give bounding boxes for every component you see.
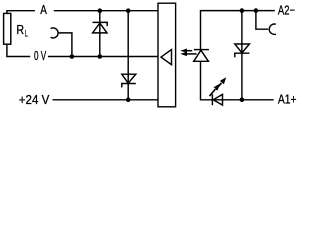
LED light arrow 2 head	[214, 84, 220, 91]
LED light arrow 1 head	[220, 77, 226, 84]
zener diode V3 leg (A2- to A1+)	[241, 11, 243, 100]
svg-text:0 V: 0 V	[34, 48, 46, 63]
svg-text:A2−: A2−	[278, 2, 295, 17]
LED light arrow 2	[210, 89, 216, 96]
connector arc stub on A2-	[256, 11, 268, 30]
junction dot 0V/V1	[98, 54, 103, 59]
zener V3 triangle	[235, 44, 250, 53]
opto light arrow 1 head	[180, 49, 187, 53]
svg-text:R: R	[16, 22, 24, 37]
optocoupler LED D1 cathode bar	[194, 49, 209, 51]
junction dot A1+/V3	[240, 98, 245, 103]
isolation box	[158, 3, 176, 107]
zener diode V2 leg (A to +24V, crossing 0V)	[127, 11, 129, 100]
indicator LED D2 triangle	[213, 94, 222, 105]
junction dot +24V/V2	[126, 98, 131, 103]
wire resistor bottom stub to 0V line	[7, 44, 30, 56]
svg-text:L: L	[25, 28, 28, 38]
zener V1 triangle	[93, 23, 107, 33]
svg-text:+24 V: +24 V	[19, 92, 50, 107]
zener V3 cathode bar with bent end	[235, 53, 250, 57]
zener V1 cathode bar with bent end	[93, 22, 108, 26]
wire 0V line after label to box	[48, 56, 158, 58]
junction dot 0V/arc wire	[70, 54, 75, 59]
indicator LED D2 cathode bar	[211, 94, 213, 105]
amplifier triangle U1	[161, 50, 172, 65]
junction dot A/V1	[98, 8, 103, 13]
wire A2- top line with corner down through opto LED	[201, 11, 275, 50]
junction dot A2-/arc stub	[254, 8, 259, 13]
svg-text:A: A	[40, 2, 47, 17]
wire A line after label to box	[54, 10, 158, 12]
svg-text:A1+: A1+	[278, 91, 297, 106]
wire +24V line	[53, 99, 159, 101]
wire opto LED to bottom corner then right	[201, 61, 274, 100]
wire from arc down to 0V line	[58, 33, 72, 57]
connector arc (test point) right	[269, 24, 276, 34]
zener diode V1 leg (A to 0V)	[99, 11, 101, 57]
opto light arrow 1	[185, 50, 192, 52]
zener V2 cathode bar with bent end	[122, 84, 136, 88]
resistor RL	[4, 13, 11, 44]
optocoupler LED D1 triangle	[194, 50, 209, 61]
wire resistor top stub to A line	[7, 11, 35, 14]
zener V2 triangle	[122, 74, 136, 83]
junction dot A2-/V3	[240, 8, 245, 13]
LED light arrow 1	[216, 83, 222, 90]
connector arc (test point) left	[51, 28, 58, 38]
opto light arrow 2 head	[180, 52, 187, 56]
opto light arrow 2	[185, 53, 197, 55]
junction dot A/V2	[126, 8, 131, 13]
